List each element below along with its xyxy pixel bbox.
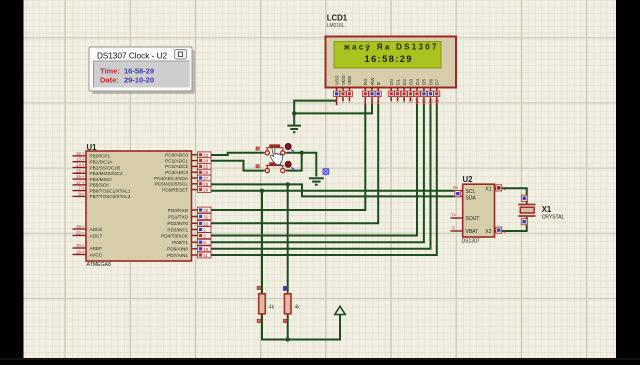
resistor R1 4k — [257, 286, 274, 322]
wire U2 X2 to crystal — [501, 217, 527, 231]
svg-text:PB4/MISO: PB4/MISO — [90, 177, 112, 182]
svg-text:6«: 6« — [453, 185, 459, 190]
svg-text:4k: 4k — [269, 305, 275, 311]
svg-text:E: E — [376, 82, 381, 85]
U1 port B pin labels — [90, 154, 131, 258]
svg-text:19: 19 — [76, 224, 81, 229]
LCD pins 1-14 — [334, 87, 440, 105]
wire buttons to ground — [287, 153, 317, 177]
U2 pin SDA 5 — [454, 191, 463, 197]
svg-text:23: 23 — [203, 153, 208, 158]
wire R2 top to SDA line — [287, 184, 289, 294]
svg-text:VSS: VSS — [334, 76, 339, 85]
svg-text:VDD: VDD — [341, 74, 346, 85]
svg-text:Time:16-58-29: Time:16-58-29 — [100, 67, 154, 76]
svg-text:18: 18 — [76, 250, 81, 255]
svg-text:U2: U2 — [463, 175, 474, 184]
wire VSS to ground — [294, 101, 336, 125]
svg-text:PD4/T0/XCK: PD4/T0/XCK — [161, 233, 189, 238]
wire LCD D5 to U1 PD5 — [211, 104, 424, 242]
wire LCD RS to U1 PD0 — [211, 104, 365, 210]
svg-text:12: 12 — [76, 151, 81, 156]
crystal X1 pin indicator boxes — [521, 195, 527, 225]
svg-text:ATMEGA8: ATMEGA8 — [87, 262, 112, 268]
U1 pin ADC7 — [73, 231, 87, 236]
svg-text:24: 24 — [203, 159, 208, 164]
svg-text:D2: D2 — [402, 79, 407, 85]
svg-text:RW: RW — [370, 77, 375, 85]
wire R1 bottom to VCC rail — [262, 314, 340, 340]
svg-text:10: 10 — [203, 247, 208, 252]
svg-text:11: 11 — [415, 99, 420, 104]
svg-text:AVCC: AVCC — [90, 253, 103, 258]
svg-text:31: 31 — [203, 215, 208, 220]
svg-text:U1: U1 — [87, 143, 98, 152]
svg-text:28: 28 — [203, 182, 208, 187]
video letterbox left — [0, 0, 24, 360]
wire LCD D4 to U1 PD4 — [211, 104, 417, 236]
U2 pin VBAT 3 — [451, 226, 463, 232]
svg-text:PD0/RXD: PD0/RXD — [168, 208, 189, 213]
svg-text:7«: 7« — [451, 213, 457, 218]
crystal X1 — [518, 205, 564, 221]
svg-text:PD1/TXD: PD1/TXD — [168, 214, 188, 219]
svg-text:D3: D3 — [408, 79, 413, 85]
U2 pin SCL 6 — [453, 185, 463, 191]
svg-text:25: 25 — [203, 164, 208, 169]
wire R2 bottom to VCC rail — [287, 314, 289, 340]
U1 pin ADC6 — [73, 224, 87, 229]
svg-text:14: 14 — [76, 163, 81, 168]
svg-text:PB0/ICP1: PB0/ICP1 — [90, 154, 111, 159]
svg-text:15: 15 — [76, 168, 81, 173]
svg-text:CRYSTAL: CRYSTAL — [542, 215, 565, 221]
svg-text:VBAT: VBAT — [466, 229, 479, 235]
svg-text:LM016L: LM016L — [327, 23, 345, 29]
svg-text:X1: X1 — [485, 187, 491, 193]
svg-text:PB5/SCK: PB5/SCK — [90, 183, 111, 188]
U1 left pins PB0-PB7 — [73, 151, 87, 197]
U2 pin X1 1 — [495, 185, 507, 191]
wire ground to LCD RW — [294, 104, 372, 113]
svg-text:D4: D4 — [415, 79, 420, 85]
U1 pin AVCC — [73, 250, 87, 255]
wire U2 X1 to crystal — [501, 188, 527, 203]
svg-text:PB1/OC1A: PB1/OC1A — [90, 160, 114, 165]
svg-text:PC5/ADC5/SCL: PC5/ADC5/SCL — [155, 182, 189, 187]
svg-text:PB7/TOSC2/XTAL2: PB7/TOSC2/XTAL2 — [90, 194, 131, 199]
svg-text:RS: RS — [363, 78, 368, 85]
svg-text:26: 26 — [203, 170, 208, 175]
svg-text:Date:29-10-20: Date:29-10-20 — [100, 76, 154, 85]
svg-text:16: 16 — [76, 174, 81, 179]
svg-text:17: 17 — [76, 180, 81, 185]
svg-text:жacý Яa DS1307: жacý Яa DS1307 — [343, 42, 439, 51]
svg-text:16:58:29: 16:58:29 — [365, 53, 413, 64]
svg-text:PD5/T1: PD5/T1 — [172, 240, 188, 245]
svg-text:SCL: SCL — [466, 189, 476, 195]
svg-text:4k: 4k — [295, 305, 301, 311]
svg-text:12: 12 — [422, 99, 427, 104]
U1 pin AREF — [73, 243, 87, 248]
svg-text:30: 30 — [203, 208, 208, 213]
svg-text:AREF: AREF — [90, 246, 103, 251]
svg-text:11: 11 — [203, 253, 208, 258]
svg-text:PD6/AIN0: PD6/AIN0 — [167, 247, 188, 252]
ground symbol below LCD VSS — [287, 126, 301, 133]
svg-text:PD3/INT1: PD3/INT1 — [167, 227, 188, 232]
wire LCD E to U1 PD2 — [211, 104, 378, 223]
U1 port C and D pin labels — [154, 153, 189, 258]
hand cursor — [270, 147, 282, 164]
wire LCD D6 to U1 PD6 — [211, 104, 431, 249]
svg-text:D0: D0 — [389, 79, 394, 85]
svg-text:ADC7: ADC7 — [90, 234, 103, 239]
video letterbox right — [616, 0, 640, 360]
junction button ground node — [300, 151, 304, 155]
svg-text:PB2/SS/OC1B: PB2/SS/OC1B — [90, 165, 120, 170]
svg-text:13: 13 — [76, 157, 81, 162]
svg-text:14: 14 — [434, 99, 439, 104]
svg-text:PC6/RESET: PC6/RESET — [162, 187, 188, 192]
svg-text:D6: D6 — [428, 79, 433, 85]
wire R1 top to SCL line — [261, 191, 263, 294]
junction SCL pull-up — [260, 189, 264, 193]
svg-text:20: 20 — [76, 243, 81, 248]
svg-text:PC1/ADC1: PC1/ADC1 — [165, 158, 188, 163]
no-connect marker — [323, 169, 329, 175]
junction SDA pull-up — [286, 182, 290, 186]
RTC U2 DS1307 — [462, 175, 495, 245]
resistor R2 4k — [283, 286, 300, 322]
popup window DS1307 Clock - U2 — [89, 47, 195, 94]
svg-text:PB6/TOSC1/XTAL1: PB6/TOSC1/XTAL1 — [90, 188, 131, 193]
junction ground node — [292, 111, 296, 115]
svg-text:D7: D7 — [435, 79, 440, 85]
LCD LCD1 LM016L — [326, 14, 457, 88]
svg-text:29: 29 — [203, 188, 208, 193]
wire LCD D7 to U1 PD7 — [211, 104, 437, 255]
svg-text:PC3/ADC3: PC3/ADC3 — [165, 170, 188, 175]
LCD pin name labels — [334, 74, 439, 85]
svg-text:32: 32 — [203, 221, 208, 226]
svg-text:22: 22 — [76, 231, 81, 236]
push button RB2 — [256, 161, 294, 172]
svg-text:27: 27 — [203, 176, 208, 181]
svg-text:PD7/AIN1: PD7/AIN1 — [167, 253, 188, 258]
wire U1 SDA to U2 SDA — [211, 184, 454, 196]
svg-text:PC2/ADC2: PC2/ADC2 — [165, 164, 188, 169]
ground symbol below buttons — [309, 178, 324, 184]
U2 pin SOUT 7 — [451, 213, 463, 219]
svg-text:X1: X1 — [542, 205, 552, 214]
wire U1 PC0 to button RB1 — [205, 153, 264, 155]
svg-text:ADC6: ADC6 — [90, 227, 103, 232]
microcontroller U1 ATMEGA8 — [86, 143, 192, 268]
svg-text:LCD1: LCD1 — [327, 14, 348, 23]
svg-text:D1: D1 — [395, 79, 400, 85]
svg-text:3: 3 — [452, 226, 455, 231]
video bottom edge — [0, 358, 640, 360]
svg-text:SDA: SDA — [466, 196, 477, 202]
svg-text:DS1307: DS1307 — [462, 239, 480, 245]
U1 right pins PD0-PD7 — [192, 207, 212, 258]
svg-text:PC4/ADC4/SDA: PC4/ADC4/SDA — [154, 176, 189, 181]
wire U1 SCL to U2 SCL — [211, 190, 454, 192]
svg-text:X2: X2 — [485, 229, 491, 235]
svg-text:PD2/INT0: PD2/INT0 — [167, 221, 188, 226]
svg-text:13: 13 — [428, 99, 433, 104]
U2 pin X2 2 — [495, 227, 507, 234]
svg-text:PB3/MOSI/OC2: PB3/MOSI/OC2 — [90, 171, 123, 176]
svg-text:DS1307 Clock - U2: DS1307 Clock - U2 — [97, 52, 168, 61]
power symbol VCC arrow — [335, 306, 345, 314]
wire U1 PC1 to button RB2 — [205, 161, 264, 171]
svg-text:SOUT: SOUT — [466, 216, 480, 222]
push button RB1 — [256, 144, 294, 155]
svg-text:D5: D5 — [422, 79, 427, 85]
svg-text:PC0/ADC0: PC0/ADC0 — [165, 153, 188, 158]
svg-text:VEE: VEE — [347, 76, 352, 85]
U1 right pins PC0-PC6 — [192, 152, 212, 193]
junction VCC rail — [286, 337, 290, 341]
svg-text:10: 10 — [408, 99, 413, 104]
